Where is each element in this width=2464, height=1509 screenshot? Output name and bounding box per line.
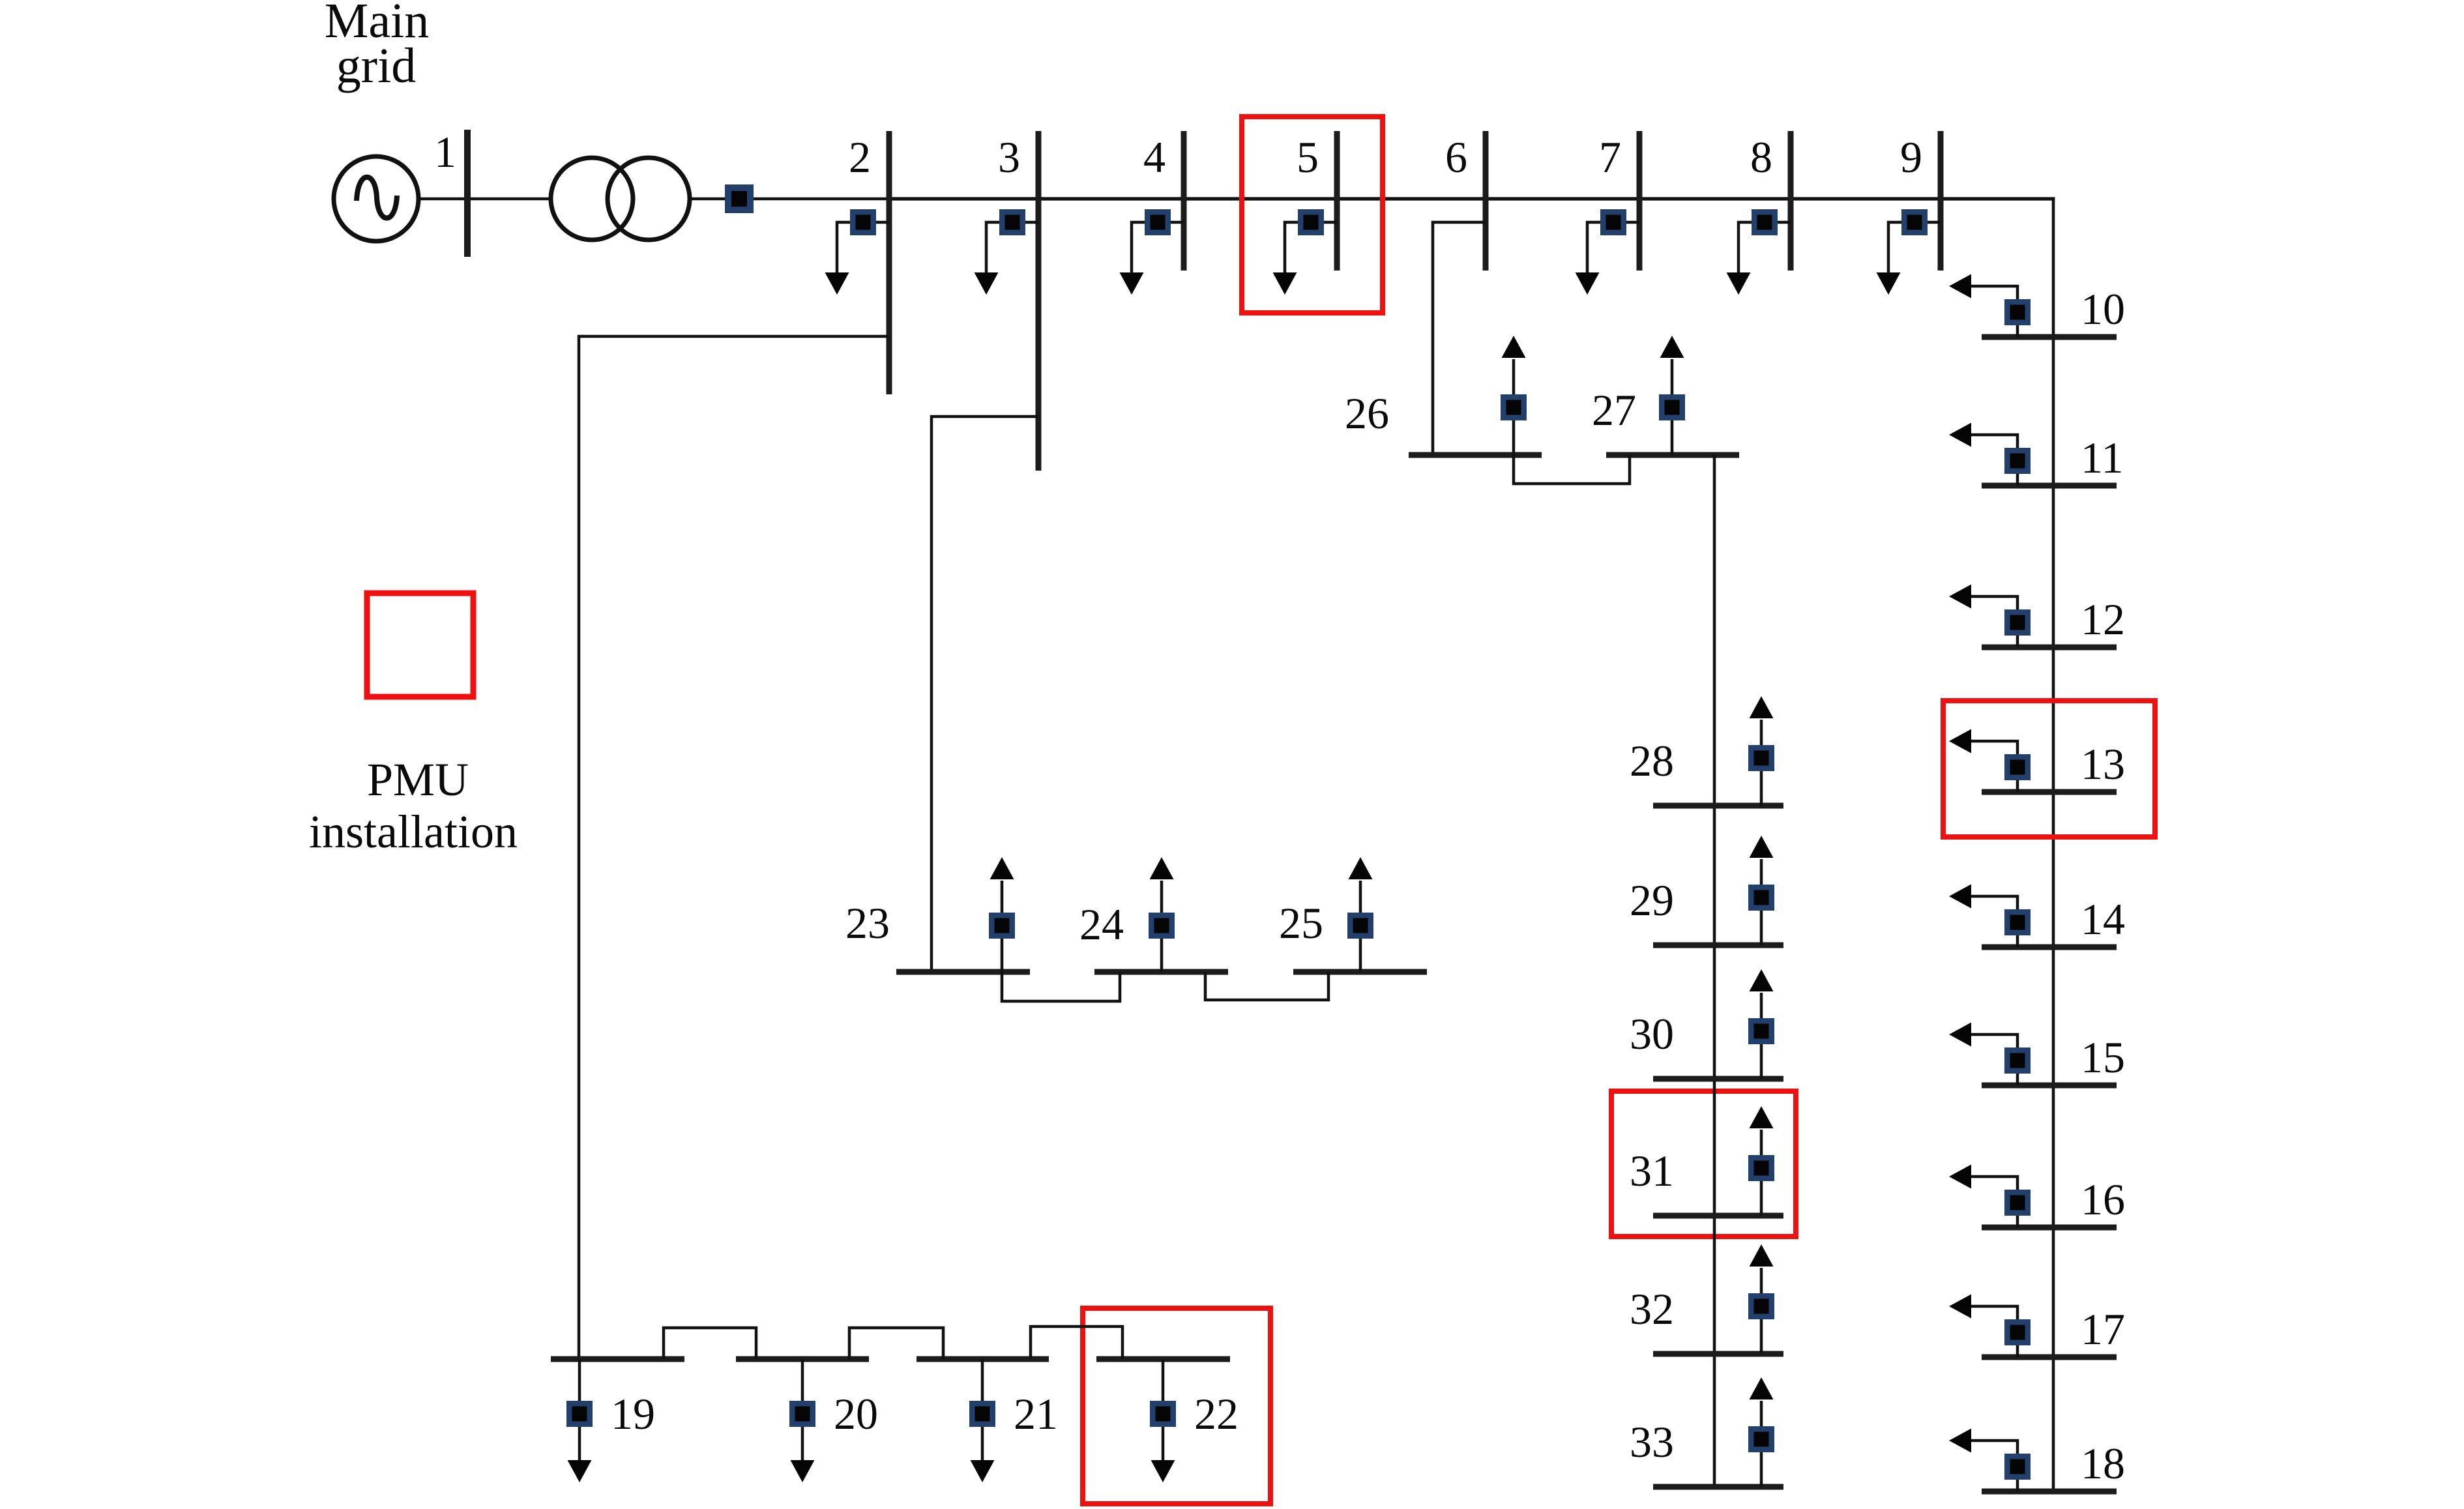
PMU meter square bus 29 [1748,885,1774,911]
branch wire bus 2 to bus 19 [579,336,889,1359]
PMU meter square bus 17 [2004,1319,2031,1345]
PMU meter square bus 10 [2004,299,2031,325]
tie wire bus 23 to bus 24 [1002,972,1120,1001]
svg-text:5: 5 [1297,132,1319,182]
PMU meter square bus 14 [2004,909,2031,935]
svg-text:33: 33 [1630,1417,1674,1467]
load wire bus 7 [1587,222,1639,272]
bus 29 [1653,943,1783,948]
svg-text:7: 7 [1599,132,1621,182]
DG wire bus 29 [1760,859,1763,945]
svg-text:13: 13 [2081,739,2125,789]
PMU meter square bus 32 [1748,1293,1774,1319]
svg-text:16: 16 [2081,1175,2125,1224]
red box PMU at bus 5 [1242,117,1383,313]
PMU meter square bus 23 [989,913,1015,939]
PMU meter square bus 3 [999,209,1025,235]
transformer T1 primary circle [551,158,633,240]
svg-text:14: 14 [2081,894,2125,944]
PMU meter square bus 22 [1150,1401,1176,1427]
svg-text:installation: installation [309,806,518,858]
bus 27 [1606,452,1739,458]
svg-text:30: 30 [1630,1009,1674,1059]
PMU meter square bus 26 [1501,394,1527,420]
PMU meter square bus 5 [1298,209,1324,235]
sine symbol inside source [357,177,397,218]
svg-text:1: 1 [434,127,456,177]
load wire bus 21 [981,1359,984,1460]
PMU meter square bus 2 [850,209,876,235]
bus 19 [551,1356,684,1362]
load wire bus 14 [1971,896,2017,947]
bus 6 [1483,131,1489,271]
svg-text:6: 6 [1445,132,1467,182]
load arrowhead bus 7 [1576,272,1600,295]
load wire bus 9 [1888,222,1941,272]
source generator circle (main grid) [334,156,418,241]
load wire bus 12 [1971,596,2017,647]
bus 15 [1982,1083,2117,1089]
load arrowhead bus 9 [1877,272,1901,295]
DG arrowhead bus 24 [1150,857,1174,879]
branch wire bus 6 to bus 26 [1433,222,1486,455]
PMU meter square bus 33 [1748,1426,1774,1452]
bus 20 [736,1356,869,1362]
bus 16 [1982,1225,2117,1231]
load wire bus 17 [1971,1306,2017,1357]
load arrowhead bus 17 [1949,1295,1971,1319]
svg-text:17: 17 [2081,1304,2125,1354]
PMU meter square bus 28 [1748,745,1774,771]
load arrowhead bus 3 [975,272,999,295]
DG arrowhead bus 33 [1750,1377,1774,1399]
svg-text:21: 21 [1014,1389,1058,1439]
load arrowhead bus 2 [825,272,849,295]
DG wire bus 31 [1760,1130,1763,1216]
wire bus 1 to transformer [471,198,550,201]
load arrowhead bus 19 [568,1460,592,1482]
bus 21 [917,1356,1049,1362]
svg-text:8: 8 [1750,132,1772,182]
load wire bus 5 [1285,222,1337,272]
load wire bus 20 [801,1359,804,1460]
bus 26 [1409,452,1542,458]
svg-text:3: 3 [998,132,1020,182]
svg-text:24: 24 [1079,900,1124,949]
svg-text:10: 10 [2081,284,2125,334]
load arrowhead bus 8 [1727,272,1751,295]
PMU meter square bus 16 [2004,1190,2031,1216]
branch wire bus 3 to bus 23 [931,417,1038,972]
bus 31 [1653,1213,1783,1219]
load wire bus 13 [1971,741,2017,792]
bus 10 [1982,334,2117,340]
svg-text:29: 29 [1630,875,1674,925]
svg-text:12: 12 [2081,594,2125,644]
load arrowhead bus 10 [1949,274,1971,299]
legend red square PMU installation [367,593,473,697]
DG wire bus 25 [1359,881,1362,972]
bus 18 [1982,1489,2117,1495]
svg-text:15: 15 [2081,1033,2125,1082]
DG wire bus 23 [1001,881,1004,972]
svg-text:28: 28 [1630,736,1674,785]
DG wire bus 24 [1160,881,1164,972]
PMU meter square bus 31 [1748,1155,1774,1181]
tie wire bus 24 to bus 25 [1205,972,1328,1000]
bus 32 [1653,1351,1783,1357]
load arrowhead bus 22 [1151,1460,1175,1482]
svg-text:grid: grid [336,38,416,93]
PMU meter square bus 11 [2004,448,2031,474]
load wire bus 3 [986,222,1038,272]
svg-text:2: 2 [849,132,871,182]
load wire bus 22 [1162,1359,1165,1460]
DG wire bus 30 [1760,993,1763,1079]
PMU meter square bus 21 [969,1401,995,1427]
red box PMU at bus 13 [1943,701,2155,837]
load wire bus 16 [1971,1177,2017,1227]
svg-text:26: 26 [1345,388,1389,438]
wire source to bus 1 [420,198,467,201]
DG arrowhead bus 25 [1349,857,1373,879]
bus 1 [464,130,471,257]
bus 28 [1653,803,1783,809]
DG wire bus 27 [1671,359,1674,455]
load wire bus 11 [1971,435,2017,486]
DG wire bus 26 [1512,359,1516,455]
svg-text:25: 25 [1279,898,1323,948]
load arrowhead bus 13 [1949,729,1971,754]
PMU meter square bus 27 [1659,394,1685,420]
svg-text:11: 11 [2081,433,2123,482]
svg-text:32: 32 [1630,1284,1674,1334]
svg-text:4: 4 [1143,132,1166,182]
load arrowhead bus 18 [1949,1429,1971,1453]
load wire bus 8 [1738,222,1791,272]
right feeder vertical wire 9-18 [2052,198,2055,1491]
DG arrowhead bus 23 [990,857,1014,879]
tie wire bus 21 to bus 22 [1031,1326,1122,1359]
PMU meter square bus 19 [566,1401,593,1427]
svg-text:19: 19 [611,1389,655,1439]
PMU meter square bus 13 [2004,754,2031,780]
DG arrowhead bus 26 [1502,336,1526,358]
DG wire bus 28 [1760,720,1763,806]
bus 25 [1293,969,1427,975]
bus 7 [1637,131,1643,271]
meter square on line 1-2 [725,184,754,213]
bus 13 [1982,789,2117,795]
bus 2 [887,131,892,394]
red box PMU at bus 22 [1083,1308,1270,1504]
load arrowhead bus 14 [1949,885,1971,909]
bus 11 [1982,483,2117,489]
DG arrowhead bus 27 [1660,336,1684,358]
bus 9 [1938,131,1944,271]
PMU meter square bus 15 [2004,1048,2031,1074]
svg-text:22: 22 [1194,1389,1239,1439]
load arrowhead bus 5 [1273,272,1297,295]
load arrowhead bus 4 [1120,272,1144,295]
load arrowhead bus 21 [971,1460,995,1482]
tie wire bus 26 to bus 27 [1514,455,1630,484]
bus 14 [1982,945,2117,950]
svg-text:18: 18 [2081,1439,2125,1488]
bus 3 [1036,131,1042,471]
PMU meter square bus 8 [1752,209,1778,235]
bus 24 [1094,969,1228,975]
load wire bus 15 [1971,1034,2017,1085]
load arrowhead bus 15 [1949,1023,1971,1047]
DG arrowhead bus 28 [1750,696,1774,718]
load wire bus 10 [1971,286,2017,337]
svg-text:23: 23 [845,898,890,948]
load arrowhead bus 20 [791,1460,815,1482]
PMU meter square bus 12 [2004,609,2031,636]
PMU meter square bus 30 [1748,1018,1774,1044]
load arrowhead bus 16 [1949,1165,1971,1189]
DG wire bus 32 [1760,1268,1763,1354]
tie wire bus 20 to bus 21 [849,1328,943,1359]
load wire bus 2 [837,222,889,272]
svg-text:31: 31 [1630,1146,1674,1195]
PMU meter square bus 20 [789,1401,815,1427]
tie wire bus 19 to bus 20 [664,1328,756,1359]
load wire bus 18 [1971,1441,2017,1491]
load arrowhead bus 12 [1949,585,1971,609]
bus 4 [1181,131,1187,271]
DG wire bus 33 [1760,1401,1763,1487]
svg-text:20: 20 [834,1389,878,1439]
red box PMU at bus 31 [1611,1091,1796,1237]
PMU meter square bus 25 [1347,913,1373,939]
svg-text:PMU: PMU [367,754,469,806]
DG arrowhead bus 30 [1750,969,1774,991]
PMU meter square bus 9 [1901,209,1928,235]
PMU meter square bus 4 [1145,209,1171,235]
branch wire bus 27 to chain 28-33 [1713,455,1716,1487]
bus 8 [1788,131,1794,271]
svg-text:9: 9 [1900,132,1922,182]
bus 22 [1096,1356,1230,1362]
DG arrowhead bus 32 [1750,1244,1774,1267]
bus 5 [1334,131,1340,271]
bus 17 [1982,1355,2117,1360]
transformer T1 secondary circle [608,158,690,240]
bus 12 [1982,645,2117,651]
bus 23 [896,969,1030,975]
wire transformer to bus 2 [690,198,889,201]
DG arrowhead bus 31 [1750,1106,1774,1128]
load wire bus 19 [578,1359,581,1460]
DG arrowhead bus 29 [1750,836,1774,858]
PMU meter square bus 24 [1149,913,1175,939]
bus 33 [1653,1484,1783,1490]
load wire bus 4 [1132,222,1184,272]
load arrowhead bus 11 [1949,423,1971,447]
bus 30 [1653,1076,1783,1082]
feeder wire bus 2 to corner after bus 9 [889,197,2055,200]
svg-text:27: 27 [1592,385,1636,435]
PMU meter square bus 18 [2004,1454,2031,1480]
PMU meter square bus 7 [1600,209,1626,235]
